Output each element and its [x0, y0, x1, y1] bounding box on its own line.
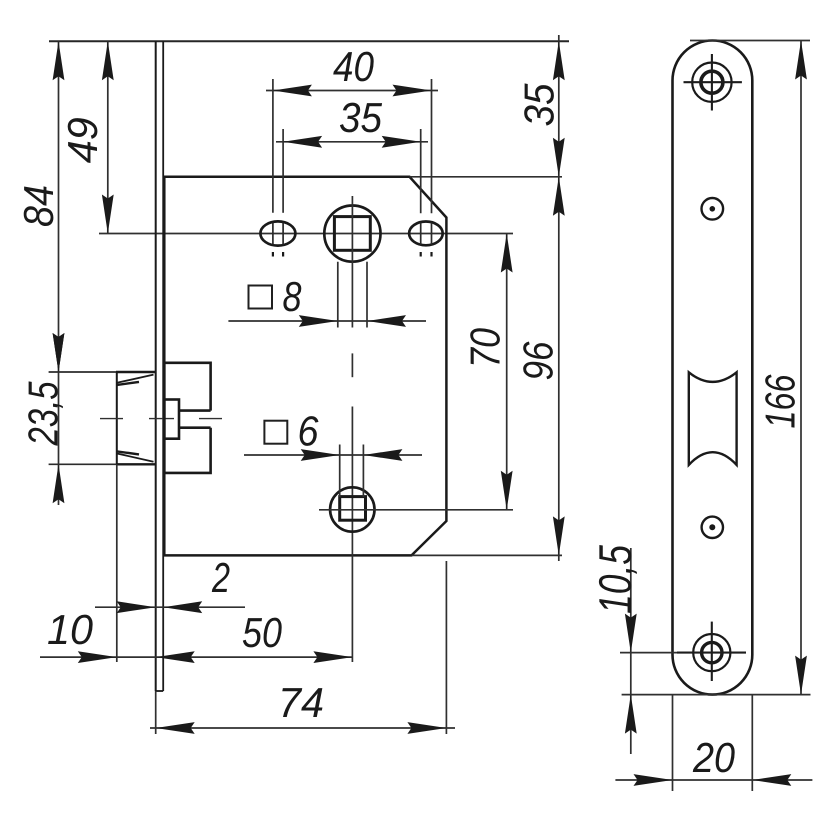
- hole centerline horizontal: [99, 233, 513, 235]
- latch bottom bevel lines: [117, 451, 154, 461]
- case top edge extension: [410, 176, 563, 178]
- dim 10,5 hole center extension: [620, 652, 677, 654]
- dim 35 text: [339, 94, 383, 141]
- dim 96 text: [515, 341, 562, 381]
- latch cutout spool shape: [689, 372, 737, 465]
- lower small hole: [702, 517, 723, 538]
- dim 35 vertical text: [516, 83, 563, 127]
- privacy square hole 6mm: [340, 497, 366, 521]
- dim 35 arrows: [283, 136, 421, 148]
- dim 96 arrows: [553, 177, 565, 556]
- dim 40 line: [266, 90, 438, 92]
- dim 70 line: [506, 234, 508, 510]
- vertical centerline lower solid: [351, 407, 353, 663]
- dim 6 line: [244, 454, 422, 456]
- spindle hub circle: [324, 206, 380, 262]
- dim 74 extension right: [445, 561, 447, 734]
- dim 23,5 text: [20, 381, 67, 446]
- svg-text:2: 2: [211, 554, 230, 601]
- dim 74 text: [278, 679, 324, 726]
- dim 50 text: [242, 609, 283, 656]
- dim 10 arrows: [78, 651, 195, 663]
- svg-text:35: 35: [339, 94, 383, 141]
- top reference line (top of faceplate strip): [49, 40, 569, 42]
- svg-text:50: 50: [242, 609, 283, 656]
- top screw cross: [684, 54, 742, 111]
- dim 8 square symbol: [249, 286, 273, 309]
- right hole dash marks below: [421, 252, 432, 257]
- faceplate strip bottom cap: [156, 690, 164, 692]
- svg-text:96: 96: [515, 341, 562, 381]
- lower small hole center dot: [709, 524, 715, 530]
- left hole dash marks below: [273, 252, 283, 257]
- dim 50 extension (spindle axis): [0, 0, 1, 1]
- faceplate stadium outline: [673, 41, 753, 695]
- dim 40 arrows: [273, 85, 432, 97]
- privacy hub circle: [330, 487, 374, 531]
- dim 35 extension right: [420, 129, 422, 213]
- dim 8 arrows: [299, 315, 406, 327]
- latch slot channel lines: [179, 411, 211, 428]
- dim 20 arrows: [634, 774, 792, 786]
- lock case outline with chamfered right corners: [164, 177, 446, 556]
- dim 74 line: [150, 727, 455, 729]
- svg-text:49: 49: [59, 117, 106, 163]
- dim 6 arrows: [301, 449, 403, 461]
- dim 49 arrows: [102, 41, 114, 233]
- dim 166 arrows: [795, 41, 807, 695]
- dim 70 text: [462, 327, 509, 368]
- dim 8 text: [283, 273, 303, 320]
- svg-text:23,5: 23,5: [20, 381, 67, 446]
- case bottom edge extension: [412, 554, 563, 556]
- dim 50 arrow right: [313, 651, 352, 663]
- dim 10 and 50 shared line: [40, 656, 352, 658]
- svg-text:6: 6: [298, 408, 320, 455]
- dim 84 text: [15, 185, 62, 227]
- dim 20 extension right: [751, 695, 753, 791]
- dim 35 extension left: [282, 129, 284, 213]
- left hole vertical lines inside: [273, 223, 283, 245]
- latch follower small rectangle: [164, 400, 179, 439]
- dim 84 line: [58, 41, 60, 372]
- square-6 extension lines: [340, 445, 364, 498]
- spindle square hole 8mm: [334, 217, 370, 251]
- dim 49 line: [107, 41, 109, 233]
- latch bolt bottom edge: [49, 463, 156, 465]
- dim 35 vertical line (right top): [558, 35, 560, 177]
- dim 6 text: [298, 408, 320, 455]
- dim 2 text: [211, 554, 230, 601]
- dim 74 arrows: [156, 722, 447, 734]
- svg-text:10,5: 10,5: [589, 545, 641, 614]
- dim 166 line: [800, 41, 802, 695]
- bottom screw cross: [677, 622, 746, 681]
- dim 40 extension left: [272, 79, 274, 213]
- spindle vertical centerline: [351, 196, 353, 328]
- svg-text:166: 166: [757, 374, 804, 428]
- latch centerline dashes: [100, 418, 222, 420]
- latch bolt front face: [116, 372, 118, 464]
- dim 96 line: [558, 177, 560, 561]
- upper small hole: [702, 198, 724, 220]
- privacy hole centerline horizontal: [319, 509, 513, 511]
- latch bolt top edge: [49, 371, 156, 373]
- dim 10,5 line: [630, 548, 632, 754]
- dim 2 arrows: [117, 601, 203, 613]
- dim 20 line: [615, 779, 812, 781]
- dim 20 text: [692, 734, 735, 781]
- vertical centerline dash: [351, 353, 353, 377]
- right mounting hole ellipse: [409, 222, 443, 246]
- latch body rectangle: [164, 363, 210, 473]
- dim 35 line: [276, 141, 428, 143]
- dim 23,5 arrows: [53, 333, 65, 503]
- svg-text:70: 70: [462, 327, 509, 368]
- svg-text:74: 74: [278, 679, 324, 726]
- right hole vertical lines inside: [421, 223, 432, 245]
- dim 23,5 line: [58, 372, 60, 505]
- dim 84 arrows: [53, 41, 65, 372]
- svg-text:84: 84: [15, 185, 62, 227]
- dim 166 top extension: [690, 40, 810, 42]
- square-8 extension lines: [338, 262, 367, 328]
- svg-text:8: 8: [283, 273, 303, 320]
- left mounting hole ellipse: [260, 221, 295, 245]
- latch front face extension down: [116, 464, 118, 662]
- dim 6 square symbol: [264, 421, 287, 444]
- dim 2 line: [95, 606, 245, 608]
- dim 35 vertical arrows: [553, 41, 565, 177]
- dim 166 bottom extension: [622, 694, 811, 696]
- svg-text:40: 40: [333, 43, 375, 90]
- dim 40 extension right: [431, 79, 433, 213]
- dim 8 line: [228, 320, 426, 322]
- top screw hole inner circle: [701, 71, 723, 93]
- svg-text:35: 35: [516, 83, 563, 127]
- bottom screw hole outer circle: [693, 634, 730, 671]
- bottom screw hole inner circle: [702, 642, 722, 662]
- upper small hole center dot: [710, 206, 716, 212]
- dim 10,5 text: [589, 545, 641, 614]
- dim 10,5 arrows: [625, 614, 637, 734]
- svg-text:10: 10: [47, 606, 94, 653]
- faceplate strip front line: [155, 41, 157, 691]
- dim 49 text: [59, 117, 106, 163]
- dim 10 text: [47, 606, 94, 653]
- dim 40 text: [333, 43, 375, 90]
- dim 74 extension left: [155, 691, 157, 734]
- faceplate strip back line: [162, 41, 164, 691]
- dim 70 arrows: [501, 234, 513, 510]
- dim 166 text: [757, 374, 804, 428]
- dim 20 extension left: [672, 695, 674, 791]
- svg-text:20: 20: [692, 734, 735, 781]
- top screw hole outer circle: [692, 62, 731, 101]
- latch top bevel lines: [117, 375, 154, 385]
